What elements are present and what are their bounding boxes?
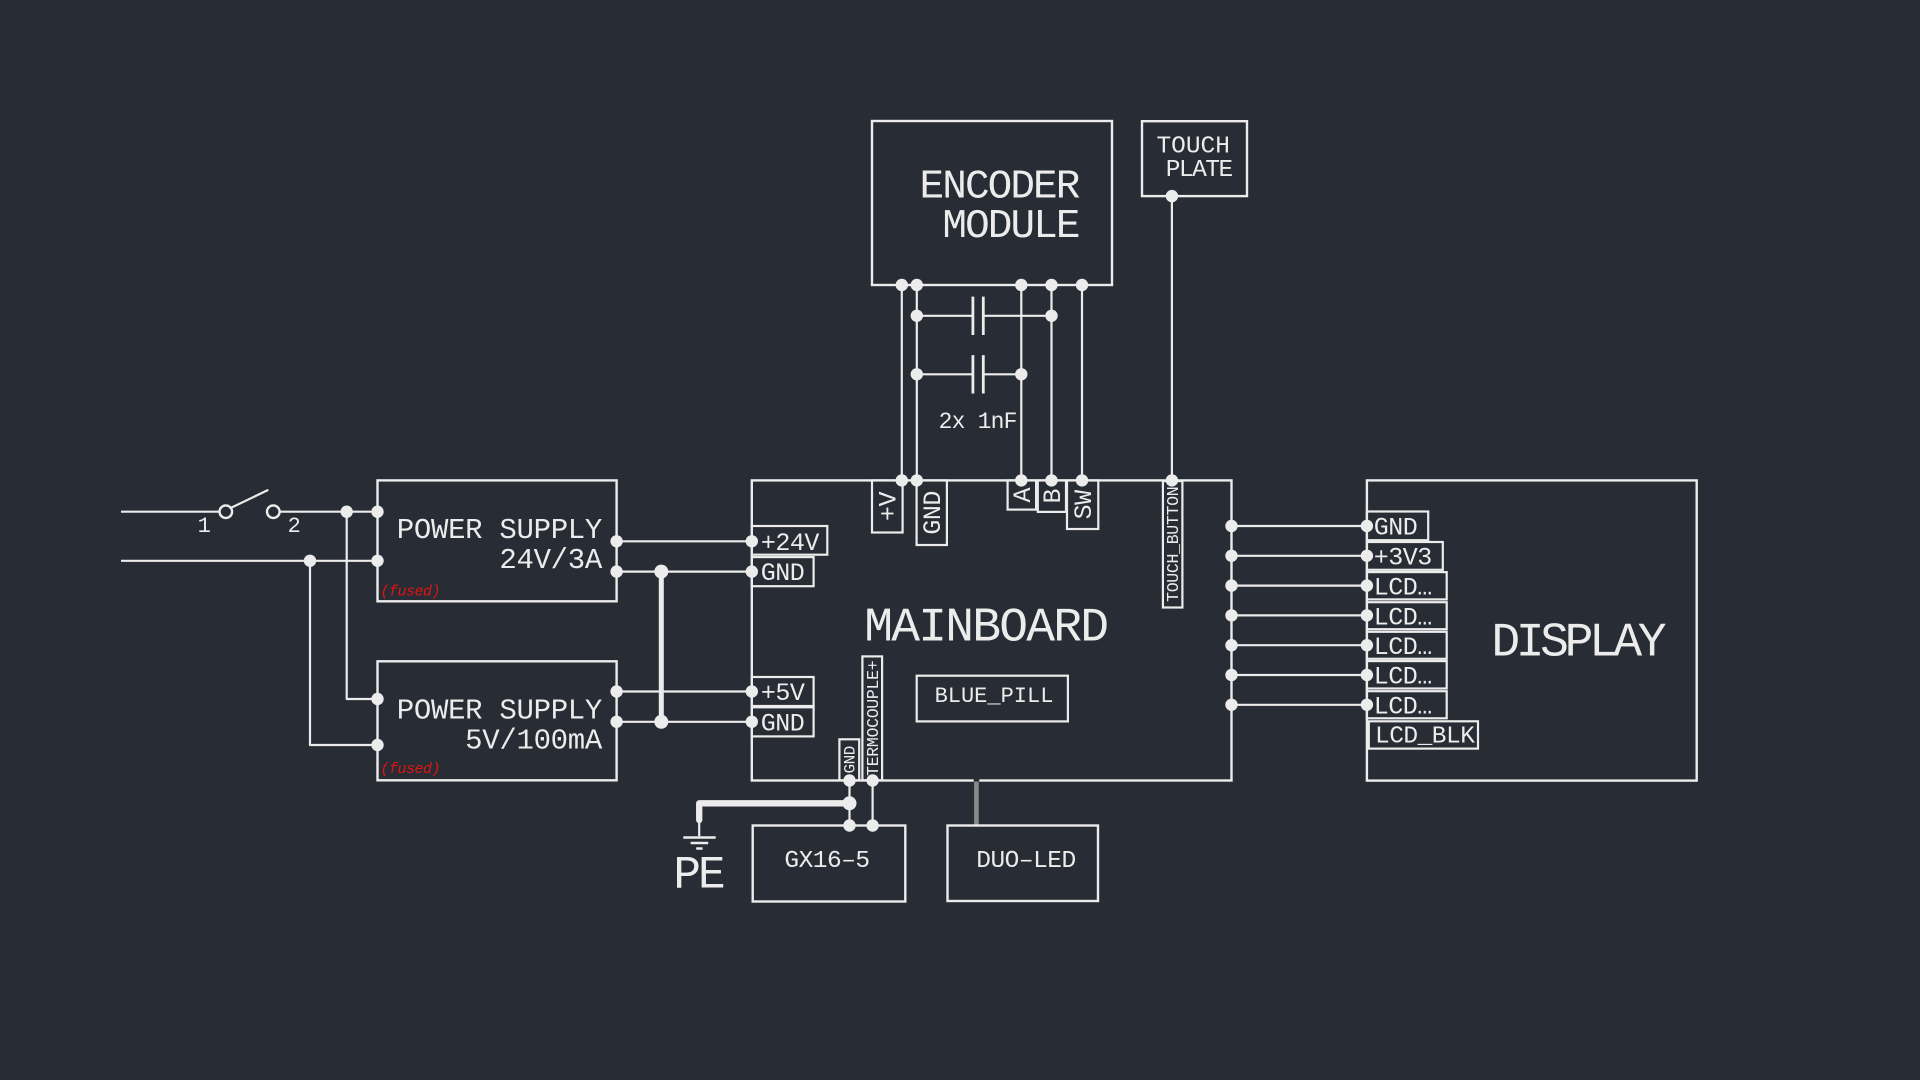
- svg-text:DISPLAY: DISPLAY: [1491, 617, 1665, 671]
- junction encoder pin GND: [911, 279, 923, 291]
- capacitor C2 wires: [917, 373, 1022, 375]
- svg-text:PLATE: PLATE: [1166, 157, 1233, 184]
- junction PS1 out+: [610, 535, 622, 547]
- svg-text:24V/3A: 24V/3A: [499, 544, 603, 577]
- mainboard pin label box TOUCH_BUTTON: [1163, 481, 1183, 607]
- junction mainboard top pin B: [1045, 474, 1057, 486]
- mainboard pin label box +V: [872, 480, 903, 532]
- display pin label box 6: [1367, 661, 1447, 688]
- switch SW1 contact 2: [267, 505, 280, 518]
- junction GND link top: [654, 565, 668, 579]
- svg-text:TOUCH_BUTTON: TOUCH_BUTTON: [1164, 487, 1183, 602]
- svg-text:MAINBOARD: MAINBOARD: [864, 602, 1107, 656]
- junction mainboard GND pin: [746, 565, 758, 577]
- junction C1 left: [911, 310, 923, 322]
- wire encoder A: [1020, 285, 1022, 480]
- wire bottom node to PS2 -in: [310, 561, 378, 745]
- blue pill module box: [917, 676, 1068, 722]
- svg-text:GND: GND: [761, 709, 805, 738]
- switch SW1 lever: [231, 490, 267, 507]
- junction GX16-5 pin GND: [843, 819, 855, 831]
- svg-text:MODULE: MODULE: [942, 204, 1079, 250]
- svg-text:5V/100mA: 5V/100mA: [465, 725, 603, 758]
- wire L2 (line input bottom): [121, 560, 378, 562]
- junction mainboard right pin 7: [1225, 699, 1237, 711]
- junction mainboard right pin 2: [1225, 550, 1237, 562]
- touch plate box: [1142, 121, 1247, 196]
- junction top wire / PS2 drop: [341, 506, 353, 518]
- wire LCD signal 7: [1232, 704, 1367, 706]
- wire encoder SW: [1081, 285, 1083, 480]
- display pin label box 3: [1367, 572, 1447, 599]
- junction PE / GND wire: [843, 796, 857, 810]
- power supply PS1 24V/3A box: [378, 480, 617, 601]
- capacitor C1 plates: [973, 297, 983, 335]
- svg-text:(fused): (fused): [381, 761, 441, 778]
- junction mainboard right pin 3: [1225, 579, 1237, 591]
- svg-text:DUO–LED: DUO–LED: [976, 848, 1075, 875]
- mainboard sheet box: [752, 480, 1232, 780]
- svg-text:LCD…: LCD…: [1374, 603, 1432, 632]
- wire GND link (thick): [659, 572, 664, 722]
- junction GND link bottom: [654, 715, 668, 729]
- junction mainboard right pin 4: [1225, 609, 1237, 621]
- junction C2 left: [911, 368, 923, 380]
- indicator DUO-LED box: [948, 826, 1099, 902]
- wire from switch to PS1 pin 1: [280, 511, 378, 513]
- svg-text:GND: GND: [1374, 514, 1418, 543]
- junction display pin 2: [1361, 550, 1373, 562]
- svg-text:A: A: [1009, 487, 1038, 502]
- wire LCD signal 5: [1232, 644, 1367, 646]
- junction touch plate pin: [1166, 190, 1178, 202]
- junction mainboard GND2 pin: [746, 716, 758, 728]
- wire encoder +V: [901, 285, 903, 480]
- junction mainboard top pin SW: [1076, 474, 1088, 486]
- capacitor C2 plates: [973, 355, 983, 393]
- junction mainboard top pin GND: [911, 474, 923, 486]
- wire encoder GND: [916, 285, 918, 480]
- junction mainboard touch pin: [1166, 474, 1178, 486]
- junction PS1 pin1: [371, 506, 383, 518]
- wire LCD signal 3: [1232, 584, 1367, 586]
- junction GX16-5 pin thermo: [866, 819, 878, 831]
- junction thermocouple bottom pin: [866, 774, 878, 786]
- junction display pin 1: [1361, 520, 1373, 532]
- junction display pin 4: [1361, 609, 1373, 621]
- svg-text:1: 1: [198, 514, 211, 539]
- svg-text:LCD…: LCD…: [1374, 573, 1432, 602]
- svg-text:+24V: +24V: [761, 529, 820, 558]
- display pin label box 2: [1367, 542, 1443, 570]
- mainboard pin label box +24V: [752, 526, 828, 555]
- ground symbol stem: [698, 820, 700, 836]
- wire encoder B: [1050, 285, 1052, 480]
- junction encoder pin +V: [896, 279, 908, 291]
- svg-text:B: B: [1039, 489, 1068, 504]
- junction PS2 pin2: [371, 739, 383, 751]
- junction bottom wire / PS2 drop: [304, 555, 316, 567]
- wire LCD signal 6: [1232, 674, 1367, 676]
- svg-text:LCD…: LCD…: [1374, 662, 1432, 691]
- wire switch node to PS2 +in: [347, 512, 378, 699]
- wire L1 (line input top): [121, 511, 219, 513]
- junction PS2 pin1: [371, 693, 383, 705]
- capacitor C1 wires: [917, 315, 1052, 317]
- wire GND 24V: [617, 570, 752, 572]
- junction mainboard top pin +V: [896, 474, 908, 486]
- mainboard pin label box A: [1008, 480, 1037, 509]
- ground symbol PE bars: [683, 838, 715, 849]
- wire mainboard GND to GX16-5: [848, 781, 850, 826]
- svg-text:GND: GND: [919, 491, 948, 535]
- wire PE (thick earth wire): [699, 803, 849, 820]
- svg-text:GND: GND: [761, 559, 805, 588]
- wire LCD signal 2: [1232, 555, 1367, 557]
- mainboard pin label box GND bottom: [839, 739, 859, 780]
- display pin label box 4: [1367, 602, 1447, 629]
- svg-text:2x 1nF: 2x 1nF: [939, 409, 1017, 435]
- gray wire notch over mainboard edge: [974, 777, 980, 781]
- svg-text:2: 2: [288, 514, 301, 539]
- junction mainboard right pin 5: [1225, 639, 1237, 651]
- junction display pin 5: [1361, 639, 1373, 651]
- display pin label box 1: [1367, 512, 1428, 541]
- junction mainboard +24V pin: [746, 535, 758, 547]
- svg-text:LCD…: LCD…: [1374, 633, 1432, 662]
- junction encoder pin B: [1045, 279, 1057, 291]
- junction mainboard right pin 6: [1225, 669, 1237, 681]
- svg-text:GND: GND: [841, 746, 859, 773]
- mainboard pin label box GND(24): [752, 557, 814, 586]
- junction mainboard +5V pin: [746, 685, 758, 697]
- junction PS1 out-: [610, 565, 622, 577]
- svg-text:LCD…: LCD…: [1374, 692, 1432, 721]
- junction C1 right: [1045, 310, 1057, 322]
- wire DUO-LED (gray): [974, 782, 979, 827]
- display sheet box: [1367, 480, 1697, 780]
- svg-text:+V: +V: [874, 492, 903, 522]
- power supply PS2 5V/100mA box: [378, 661, 617, 780]
- svg-text:(fused): (fused): [381, 584, 441, 601]
- wire thermocouple: [871, 781, 873, 826]
- svg-text:GX16–5: GX16–5: [784, 848, 869, 875]
- svg-text:TERMOCOUPLE+: TERMOCOUPLE+: [864, 661, 883, 776]
- svg-text:BLUE_PILL: BLUE_PILL: [935, 684, 1054, 709]
- wire LCD signal 1: [1232, 525, 1367, 527]
- wire touch plate to mainboard: [1171, 196, 1173, 480]
- mainboard pin label box GND top: [917, 480, 947, 545]
- junction mainboard top pin A: [1015, 474, 1027, 486]
- junction display pin 6: [1361, 669, 1373, 681]
- svg-text:POWER SUPPLY: POWER SUPPLY: [397, 514, 602, 547]
- display pin label box 7: [1367, 691, 1447, 718]
- junction display pin 7: [1361, 699, 1373, 711]
- display pin label box 5: [1367, 632, 1447, 659]
- junction PS2 out-: [610, 716, 622, 728]
- svg-text:SW: SW: [1070, 490, 1099, 520]
- mainboard pin label box SW: [1067, 480, 1098, 529]
- wire +24V: [617, 540, 752, 542]
- junction encoder pin SW: [1076, 279, 1088, 291]
- svg-text:PE: PE: [673, 850, 724, 902]
- wire +5V: [617, 690, 752, 692]
- wire GND 5V: [617, 721, 752, 723]
- junction PS2 out+: [610, 685, 622, 697]
- mainboard pin label box GND(5): [752, 707, 814, 736]
- connector GX16-5 box: [753, 826, 906, 902]
- junction PS1 pin2: [371, 555, 383, 567]
- svg-text:+5V: +5V: [761, 679, 805, 708]
- switch SW1 contact 1: [220, 505, 233, 518]
- encoder module sheet box: [872, 121, 1112, 285]
- mainboard pin label box TERMOCOUPLE+: [862, 656, 882, 780]
- junction encoder pin A: [1015, 279, 1027, 291]
- svg-text:POWER SUPPLY: POWER SUPPLY: [397, 695, 602, 728]
- junction GND bottom pin: [843, 774, 855, 786]
- svg-text:+3V3: +3V3: [1374, 544, 1432, 573]
- mainboard pin label box B: [1038, 480, 1066, 512]
- junction C2 right: [1015, 368, 1027, 380]
- mainboard pin label box +5V: [752, 677, 814, 706]
- svg-text:LCD_BLK: LCD_BLK: [1375, 724, 1475, 751]
- display pin label box LCD_BLK: [1369, 721, 1478, 748]
- junction display pin 3: [1361, 579, 1373, 591]
- wire LCD signal 4: [1232, 614, 1367, 616]
- junction mainboard right pin 1: [1225, 520, 1237, 532]
